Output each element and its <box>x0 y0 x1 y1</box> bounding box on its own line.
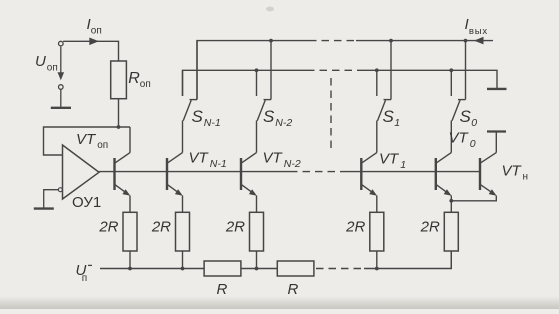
op-amp OU1 <box>63 145 100 199</box>
op-amp inverting input bubble <box>58 188 62 192</box>
wire: 2R to ladder <box>182 251 184 269</box>
junction on ladder <box>375 267 379 271</box>
switch contact hook <box>190 99 198 101</box>
svg-text:2R: 2R <box>420 218 440 235</box>
wire: ground bus (second) <box>183 70 308 96</box>
wire: feedback from node A to op-amp input <box>44 127 131 155</box>
junction on output bus <box>389 39 393 43</box>
emitter <box>362 185 374 194</box>
switch arm <box>183 100 191 121</box>
emitter <box>115 185 127 194</box>
wire: VTn emitter to VT0 emitter <box>451 196 496 201</box>
switch arm <box>257 100 265 121</box>
switch right contact <box>196 41 198 100</box>
wire: top terminal to Rop <box>63 41 118 61</box>
svg-text:S: S <box>383 107 395 126</box>
resistor 2R <box>444 212 458 251</box>
svg-text:VT: VT <box>263 150 284 167</box>
svg-text:R: R <box>288 281 299 298</box>
wire: 2R to ladder <box>376 251 378 269</box>
emitter <box>437 185 449 194</box>
emitter <box>168 185 180 194</box>
voltage arrow Uop <box>60 47 62 78</box>
wire: 2R to ladder <box>256 251 258 269</box>
svg-text:VT: VT <box>449 130 470 147</box>
switch contact hook <box>384 99 392 101</box>
switch right contact <box>390 41 392 100</box>
transistor bar <box>479 158 481 190</box>
resistor 2R <box>176 212 190 251</box>
svg-text:S: S <box>460 107 472 126</box>
switch left contact <box>376 70 378 96</box>
svg-text:вых: вых <box>469 26 488 37</box>
wire: switch arm to collector <box>376 121 378 153</box>
transistor bar <box>113 158 115 190</box>
wire: switch arm to collector <box>182 121 184 153</box>
resistor R (first) <box>204 261 241 276</box>
wire: output bus (top) <box>197 41 309 100</box>
svg-text:N-1: N-1 <box>210 158 227 170</box>
switch left contact <box>182 70 184 96</box>
svg-text:2R: 2R <box>345 218 365 235</box>
junction on output bus <box>269 39 273 43</box>
junction on ladder <box>128 267 132 271</box>
wire: ladder between R resistors <box>241 268 277 270</box>
wire: common base line from op-amp output <box>99 171 290 173</box>
transistor bar <box>360 158 362 190</box>
junction on ground bus <box>255 68 259 72</box>
resistor 2R <box>250 212 264 251</box>
continuation dashed line <box>330 78 332 152</box>
svg-text:VT: VT <box>76 131 97 148</box>
switch contact hook <box>458 99 466 101</box>
svg-text:N-2: N-2 <box>275 117 292 129</box>
wire: emitter to 2R <box>376 196 378 213</box>
ground (op-amp input) <box>34 207 54 209</box>
junction: node A (Rop / feedback / VTop collector) <box>117 125 121 129</box>
wire: switch arm to collector <box>256 121 258 153</box>
junction on output bus <box>464 39 468 43</box>
wire: emitter to 2R <box>450 196 452 213</box>
junction on ground bus <box>449 68 453 72</box>
collector <box>362 153 377 163</box>
collector terminal bar (VTn) <box>487 130 506 132</box>
collector <box>115 153 130 163</box>
transistor bar <box>435 158 437 190</box>
svg-text:N-2: N-2 <box>284 158 301 170</box>
terminal: Uop positive <box>59 41 64 46</box>
junction: emitters of VT0 and VTn <box>449 199 453 203</box>
svg-text:оп: оп <box>97 140 108 151</box>
switch arm <box>452 100 460 121</box>
switch contact hook <box>264 99 272 101</box>
junction on ladder <box>255 267 259 271</box>
switch left contact <box>450 70 452 96</box>
resistor 2R <box>370 212 384 251</box>
wire: terminal to ground <box>60 89 62 107</box>
switch right contact <box>270 41 272 100</box>
svg-text:S: S <box>263 107 275 126</box>
svg-text:N-1: N-1 <box>204 117 221 129</box>
wire: ladder dashed continuation <box>316 268 364 270</box>
svg-text:R: R <box>217 281 228 298</box>
svg-text:VT: VT <box>502 163 523 180</box>
switch left contact <box>256 70 258 96</box>
svg-text:2R: 2R <box>151 218 171 235</box>
wire: emitter to 2R <box>256 196 258 213</box>
wire: switch arm to collector <box>450 121 452 153</box>
collector <box>437 153 452 163</box>
wire: Rop to node A <box>118 99 120 127</box>
svg-text:1: 1 <box>394 117 400 129</box>
wire: 2R to ladder <box>450 251 452 269</box>
switch right contact <box>465 41 467 100</box>
svg-text:U: U <box>35 53 46 70</box>
terminal: Uop negative <box>59 85 64 90</box>
junction on ground bus <box>375 68 379 72</box>
svg-text:VT: VT <box>379 151 400 168</box>
svg-text:R: R <box>128 70 140 87</box>
resistor 2R <box>123 212 137 251</box>
svg-text:ОУ1: ОУ1 <box>72 194 101 211</box>
svg-text:0: 0 <box>471 117 477 129</box>
svg-text:0: 0 <box>470 138 476 150</box>
svg-text:оп: оп <box>47 62 58 73</box>
resistor R (second) <box>277 261 314 276</box>
svg-text:S: S <box>192 107 204 126</box>
svg-text:1: 1 <box>400 159 406 171</box>
svg-text:VT: VT <box>189 150 210 167</box>
emitter <box>242 185 254 194</box>
wire: inverting input to ground <box>44 190 59 209</box>
ground (Uop) <box>51 107 71 109</box>
ground (bus) <box>487 88 507 90</box>
collector <box>168 153 183 163</box>
wire: ladder right segment <box>364 251 451 269</box>
svg-text:оп: оп <box>140 79 151 90</box>
svg-text:п: п <box>82 273 87 284</box>
svg-text:н: н <box>523 171 529 182</box>
resistor Rop <box>111 61 127 99</box>
junction on ladder <box>181 267 185 271</box>
wire: emitter to 2R <box>129 196 131 213</box>
current arrow Iop <box>89 38 99 46</box>
transistor bar <box>166 158 168 190</box>
transistor bar <box>240 158 242 190</box>
wire: emitter to 2R <box>182 196 184 213</box>
svg-text:2R: 2R <box>98 218 118 235</box>
collector <box>481 153 497 163</box>
wire: ladder left segment <box>100 268 204 270</box>
emitter <box>481 185 494 194</box>
current arrow Ivyh <box>474 37 484 45</box>
switch arm <box>378 100 386 121</box>
svg-text:2R: 2R <box>225 218 245 235</box>
collector <box>242 153 257 163</box>
wire: 2R to ladder <box>129 251 131 269</box>
svg-text:оп: оп <box>91 26 102 37</box>
